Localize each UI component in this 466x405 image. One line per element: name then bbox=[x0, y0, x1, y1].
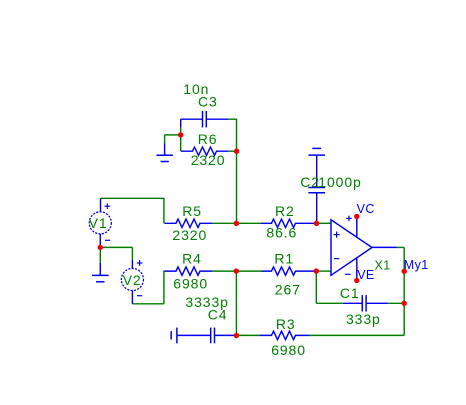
svg-text:86.6: 86.6 bbox=[266, 224, 297, 240]
svg-text:2320: 2320 bbox=[191, 152, 226, 168]
svg-text:V1: V1 bbox=[89, 215, 108, 231]
svg-text:1000p: 1000p bbox=[318, 174, 361, 190]
svg-text:VC: VC bbox=[357, 202, 375, 216]
svg-text:2320: 2320 bbox=[172, 227, 207, 243]
svg-text:R4: R4 bbox=[182, 251, 202, 267]
svg-text:R3: R3 bbox=[276, 316, 296, 332]
svg-text:R6: R6 bbox=[198, 131, 218, 147]
svg-text:267: 267 bbox=[275, 281, 301, 297]
svg-text:R5: R5 bbox=[182, 203, 202, 219]
svg-text:My1: My1 bbox=[404, 258, 429, 272]
svg-text:C1: C1 bbox=[340, 285, 360, 301]
svg-text:C3: C3 bbox=[198, 94, 218, 110]
svg-text:X1: X1 bbox=[375, 258, 391, 272]
svg-text:C4: C4 bbox=[208, 307, 228, 323]
svg-text:R1: R1 bbox=[274, 251, 294, 267]
svg-text:VE: VE bbox=[357, 268, 374, 282]
svg-text:6980: 6980 bbox=[271, 342, 306, 358]
svg-text:V2: V2 bbox=[123, 272, 142, 288]
svg-text:C2: C2 bbox=[300, 174, 320, 190]
svg-text:333p: 333p bbox=[346, 311, 381, 327]
svg-text:R2: R2 bbox=[275, 203, 295, 219]
svg-text:6980: 6980 bbox=[173, 275, 208, 291]
